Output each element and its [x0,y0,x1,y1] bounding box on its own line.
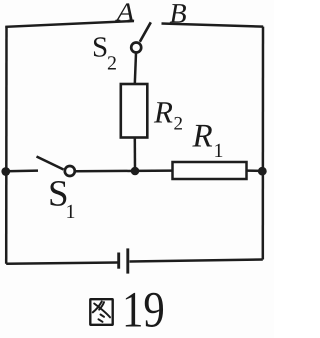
svg-text:19: 19 [122,282,165,338]
wire right side [262,27,265,260]
wire bottom-right segment [130,260,263,262]
wire S2 to R2 top [135,53,136,84]
svg-text:S: S [92,31,108,63]
wire middle branch left (node to S1 contact) [6,169,38,172]
wire top-right segment [162,24,264,27]
svg-text:R: R [192,118,213,154]
node junction center (dot) [131,167,140,176]
resistor R1 (horizontal box) [173,162,247,179]
switch S1 pivot circle [65,166,75,176]
wire bottom-left segment [6,263,117,264]
switch S1 lever (open) [37,157,64,170]
resistor R2 (vertical box) [121,84,148,138]
svg-text:1: 1 [66,201,76,223]
svg-text:R: R [153,94,173,129]
switch S2 lever (open) [140,22,151,42]
svg-text:1: 1 [214,140,224,162]
wire top-left segment [7,21,135,28]
wire center node to R1 [135,169,172,172]
switch S2 pivot circle [131,43,141,53]
svg-text:A: A [115,0,135,27]
wire R1 right lead [247,169,263,172]
wire left side [5,27,8,264]
node junction right (dot) [258,167,267,176]
wire S1 to center node [76,170,136,173]
wire R2 bottom lead to center node [134,138,137,171]
battery negative plate (short) [117,253,120,269]
node junction left (dot) [1,167,10,176]
svg-text:B: B [170,0,187,29]
caption character 图 (hand drawn) [90,299,112,325]
svg-text:2: 2 [174,113,184,134]
svg-text:2: 2 [107,52,117,74]
battery positive plate (long) [126,248,129,273]
